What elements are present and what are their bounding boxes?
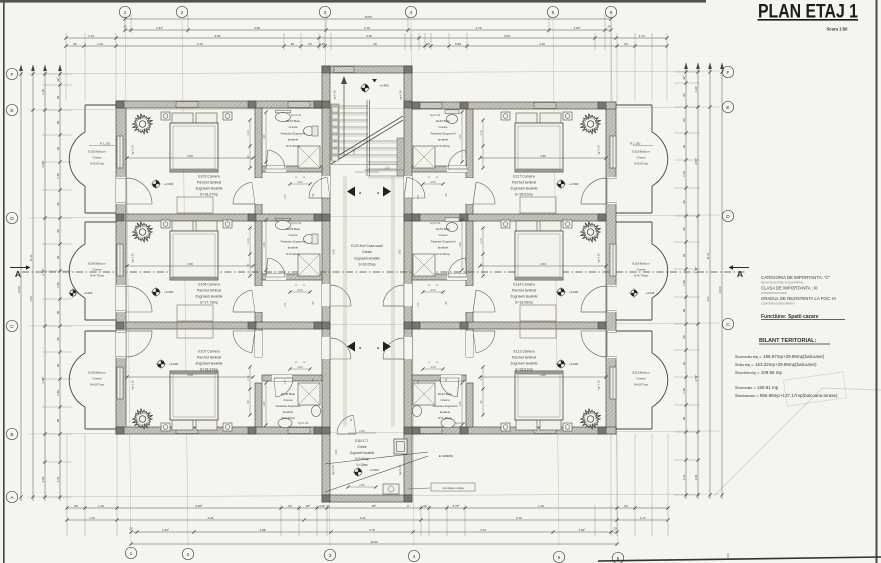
svg-text:+3.000: +3.000 [569,182,579,186]
balcony door room E117 [581,177,617,204]
hall door room E104 [233,286,262,312]
rug room E101 [177,197,213,213]
svg-text:32⁵: 32⁵ [682,74,686,79]
svg-text:14.60: 14.60 [718,286,722,293]
svg-text:S=3.40mp: S=3.40mp [281,416,295,420]
balcony E109 label [88,371,106,387]
svg-text:1.94⁵: 1.94⁵ [156,26,164,30]
bath E115 label [430,221,456,256]
svg-text:2.60: 2.60 [359,483,365,487]
wall stair shaft left [322,66,330,495]
svg-text:+3.000: +3.000 [569,362,579,366]
interior dim room E117 [478,145,607,160]
svg-text:3: 3 [329,553,332,559]
svg-text:E117:Camera: E117:Camera [513,175,534,179]
svg-text:Gresie: Gresie [92,268,101,272]
svg-text:E106:Balcon: E106:Balcon [88,262,106,266]
hall dims unit E112 [417,362,448,384]
svg-text:5.60⁵: 5.60⁵ [195,504,203,508]
svg-text:Gresie: Gresie [636,268,645,272]
balcony window room E117 [610,136,616,168]
svg-text:2.00: 2.00 [297,365,303,369]
left dimension column sub [29,65,35,502]
windows top wall [176,67,556,109]
corridor label E120 [332,244,402,267]
centrala murala callout [408,483,475,491]
svg-text:6.40: 6.40 [208,516,214,520]
svg-text:11.41: 11.41 [29,254,33,261]
svg-text:1.47: 1.47 [417,194,420,199]
bath E115 side dims [459,218,464,271]
plant room E107 [132,409,152,430]
rug room E104 [177,305,213,321]
bath E108 side dims [263,381,268,426]
svg-text:hgr=1.60: hgr=1.60 [332,464,335,475]
svg-text:V>10mc: V>10mc [356,463,368,467]
bath E115 fixtures [413,218,459,276]
svg-text:1.47: 1.47 [284,302,287,307]
svg-text:E115:Baie: E115:Baie [436,227,450,231]
entry door unit E102 [309,176,330,198]
svg-text:E116:Balcon: E116:Balcon [632,262,650,266]
label room E111 [510,350,537,372]
svg-text:hg=0.90: hg=0.90 [333,90,337,100]
bath E108 fixtures [278,383,321,428]
svg-text:2: 2 [187,552,190,558]
svg-text:6.90: 6.90 [215,34,221,38]
svg-text:Zugraveli lavabile: Zugraveli lavabile [195,187,222,191]
wall outer left [116,101,126,434]
balcony window room E114 [610,244,616,276]
svg-text:92: 92 [682,362,686,366]
partition dim room E101 [247,118,252,169]
svg-text:B: B [10,432,13,438]
svg-text:hg=1.00: hg=1.00 [597,145,601,155]
boiler room door [336,415,356,434]
svg-text:3: 3 [324,10,327,16]
svg-text:F: F [11,72,14,78]
svg-text:20: 20 [373,42,377,46]
top dimension row axes [123,25,612,32]
label room E104 [195,283,222,305]
bed room E104 [161,220,232,280]
svg-text:Parchet laminat: Parchet laminat [512,356,536,360]
rug room E114 [520,305,556,321]
svg-text:2.10: 2.10 [247,375,250,380]
partition dim room E111 [480,365,485,416]
entry door unit E105 [322,284,351,306]
svg-text:4.68: 4.68 [254,26,260,30]
svg-text:20: 20 [123,25,127,29]
svg-text:Zugraveli lavabile: Zugraveli lavabile [195,295,222,299]
boiler unit [394,439,407,454]
svg-text:lavabile: lavabile [283,410,294,414]
hall dims unit E108 [284,362,315,384]
section arrows a upper [347,187,391,197]
balcony E119 [616,105,668,213]
svg-text:hgr=1.60: hgr=1.60 [430,113,441,117]
svg-text:5.70: 5.70 [197,42,203,46]
svg-text:1.80: 1.80 [263,134,266,139]
svg-text:Gresie: Gresie [440,398,449,402]
bath E118 fixtures [413,110,459,168]
svg-text:2.00: 2.00 [430,365,436,369]
svg-text:S=3.40mp: S=3.40mp [438,416,452,420]
svg-text:90: 90 [56,419,60,423]
scan edge left line [3,2,5,563]
balcony door room E111 [581,331,617,358]
svg-text:Zugraveli lavabile: Zugraveli lavabile [510,187,537,191]
svg-text:F: F [727,70,730,76]
top dimension row walls [64,34,668,40]
balcony E116 label [629,262,655,298]
bath E105 door [266,258,286,280]
svg-text:4: 4 [410,10,413,16]
svg-text:E109:Balcon: E109:Balcon [88,371,106,375]
plant room E114 [580,222,600,243]
svg-text:CATEGORIA DE IMPORTANTA: "C": CATEGORIA DE IMPORTANTA: "C" [761,275,831,280]
svg-text:2.10: 2.10 [247,130,250,135]
svg-text:2.40: 2.40 [364,168,370,172]
svg-text:hg=1.00: hg=1.00 [131,253,135,263]
svg-text:5.80: 5.80 [455,42,461,46]
wall top right span [412,102,616,109]
svg-text:E114:Camera: E114:Camera [513,283,534,287]
bed room E117 [501,112,572,172]
bath E105 label [281,221,306,256]
svg-text:6: 6 [610,10,613,16]
interior dim room E111 [478,373,607,390]
boiler room level marker [353,467,379,477]
svg-text:90: 90 [682,335,686,339]
bath E102 fixtures [276,110,321,168]
svg-text:20: 20 [613,527,617,531]
staircase [331,76,404,178]
svg-text:Gresie: Gresie [438,125,447,129]
wall partition right units [466,109,473,427]
balcony E116 [616,222,668,320]
svg-text:D: D [726,214,730,220]
bath E105 fixtures [276,218,321,276]
svg-text:92: 92 [56,364,60,368]
svg-text:E104:Camera: E104:Camera [198,283,220,287]
level marker room E117 [556,179,579,189]
svg-text:+3.000: +3.000 [169,362,179,366]
svg-text:1.10: 1.10 [385,167,390,170]
svg-text:90: 90 [56,311,60,315]
balcony window room E104 [117,244,123,276]
svg-text:lavabile: lavabile [438,138,449,142]
svg-text:1.10: 1.10 [538,504,544,508]
svg-text:20: 20 [129,527,133,531]
section arrows a lower [347,342,391,352]
svg-text:E105:Baie: E105:Baie [286,227,301,231]
svg-text:+3.000: +3.000 [164,290,174,294]
svg-text:1.47: 1.47 [417,379,420,384]
svg-text:S=18.61mp: S=18.61mp [515,193,533,197]
svg-text:1.80: 1.80 [459,401,462,406]
title PLAN ETAJ 1 [758,2,859,23]
svg-text:1.47: 1.47 [284,194,287,199]
svg-text:S=5.07mp: S=5.07mp [634,162,648,166]
balcony E113 label [632,371,650,387]
svg-text:E113:Balcon: E113:Balcon [632,371,650,375]
svg-text:hgr=1.60: hgr=1.60 [291,113,302,117]
balcony window room E107 [117,367,123,399]
svg-text:1.60: 1.60 [56,390,60,396]
wall partition left units [255,108,262,427]
hall dims unit E115 [417,285,448,307]
svg-text:1: 1 [124,10,127,16]
svg-text:2.14: 2.14 [56,476,60,482]
svg-text:92: 92 [56,256,60,260]
label room E117 [510,175,537,197]
label room E107 [195,350,222,372]
balcony door room E107 [116,331,152,358]
svg-text:2.00: 2.00 [297,180,303,184]
svg-text:D: D [10,216,14,222]
balcony E106 [69,222,116,320]
svg-text:3.53: 3.53 [29,296,33,302]
svg-text:1.60: 1.60 [56,282,60,288]
svg-text:16.50: 16.50 [370,540,378,544]
svg-text:Sconstruita = 150.81 mp: Sconstruita = 150.81 mp [735,385,779,390]
bath E108 door [272,375,293,397]
balcony E106 label [68,262,106,298]
bottom dimension row openings [65,504,669,510]
corridor dims [350,168,379,421]
svg-text:S=26.05mp: S=26.05mp [359,263,376,267]
wall stair tower top [322,66,412,73]
svg-text:Parchet laminat: Parchet laminat [197,289,221,293]
svg-text:60: 60 [426,42,430,46]
svg-text:Zugraveli lavabile: Zugraveli lavabile [195,362,222,366]
interior dim room E114 [478,253,607,268]
plant room E101 [132,114,152,135]
svg-text:Centrala murala: Centrala murala [442,486,464,490]
svg-text:hg=0.90: hg=0.90 [399,90,403,100]
windows bottom wall [176,428,556,434]
svg-text:R 1,150: R 1,150 [630,142,641,146]
svg-text:E118:Baie: E118:Baie [436,119,450,123]
bilant values total [735,385,838,398]
svg-text:S=5.07mp: S=5.07mp [90,383,104,387]
structural columns [116,66,606,502]
svg-text:E110:C.T.: E110:C.T. [355,439,369,443]
balcony E119 label [630,142,653,166]
svg-text:1.70: 1.70 [639,34,645,38]
svg-text:90: 90 [56,121,60,125]
svg-text:S=5.07mp: S=5.07mp [90,162,104,166]
svg-text:32⁵: 32⁵ [56,76,60,81]
note functiune [761,314,845,320]
svg-text:S=4.79mp: S=4.79mp [90,274,104,278]
heading bilant teritorial [759,338,830,344]
svg-text:Gresie: Gresie [362,250,372,254]
svg-text:1.60: 1.60 [682,171,686,177]
svg-text:2.14: 2.14 [682,474,686,480]
witness lines bottom [67,434,668,536]
fire rating callout [325,452,453,492]
svg-text:C: C [726,322,730,328]
boiler room sink [383,484,399,494]
plant room E117 [580,114,600,135]
left dimension column axes [41,65,47,502]
bottom dimension row walls [65,516,669,522]
svg-text:2.04: 2.04 [694,474,698,480]
top dimension row total [123,15,612,21]
svg-text:1.60: 1.60 [56,173,60,179]
svg-text:2.10: 2.10 [480,375,483,380]
svg-text:90: 90 [682,118,686,122]
svg-text:Functiune: Spatii cazare: Functiune: Spatii cazare [761,314,819,320]
svg-text:82: 82 [56,96,60,100]
hall door room E111 [466,331,495,357]
svg-text:4.60: 4.60 [540,262,546,266]
svg-text:S=18.27mp: S=18.27mp [200,368,218,372]
svg-text:E111:Camera: E111:Camera [513,350,534,354]
svg-text:E120:Hol+Casa scarii: E120:Hol+Casa scarii [351,244,383,248]
svg-text:2: 2 [181,10,184,16]
svg-text:hg=1.00: hg=1.00 [131,145,135,155]
level marker room E101 [151,179,174,189]
balcony window room E111 [610,367,616,399]
bottom dimension row axes [129,527,618,534]
rug room E111 [520,322,556,338]
svg-text:3.59⁵: 3.59⁵ [694,266,698,274]
svg-text:CLASA DE IMPORTANTA : III: CLASA DE IMPORTANTA : III [761,286,818,291]
svg-text:1.60: 1.60 [682,280,686,286]
svg-text:Parchet laminat: Parchet laminat [197,356,221,360]
svg-text:Faianta+Zugraveli: Faianta+Zugraveli [433,404,458,408]
svg-text:20: 20 [607,25,611,29]
svg-text:82: 82 [682,93,686,97]
svg-text:Gresie: Gresie [636,377,645,381]
svg-text:lavabile: lavabile [438,246,449,250]
svg-text:1.94⁵: 1.94⁵ [573,26,581,30]
svg-text:60: 60 [624,504,628,508]
svg-text:30⁵: 30⁵ [372,504,377,508]
top dimension row openings [64,42,668,48]
faint backside outline [714,372,881,496]
svg-text:92: 92 [682,254,686,258]
svg-text:30⁵: 30⁵ [306,504,311,508]
partition dim room E117 [480,118,485,169]
stair rail labels [333,90,403,155]
svg-text:S=18.27mp: S=18.27mp [200,193,218,197]
label room E114 [510,283,537,305]
svg-text:Gresie: Gresie [357,445,367,449]
svg-text:Gresie: Gresie [92,377,101,381]
svg-text:Sconstruita etaj = 196.97mp+29: Sconstruita etaj = 196.97mp+29.86mp(balc… [735,354,825,359]
hall dims unit E105 [284,285,315,307]
witness lines left [42,74,72,497]
svg-text:2.00: 2.00 [430,288,436,292]
svg-text:Zugraveli lavabile: Zugraveli lavabile [350,451,375,455]
svg-text:E: E [10,108,13,114]
svg-text:3.40: 3.40 [319,42,325,46]
svg-text:lavabile: lavabile [440,410,451,414]
svg-text:hgr=1.60: hgr=1.60 [399,464,402,475]
svg-text:E119:Balcon: E119:Balcon [632,150,650,154]
hall dims unit E118 [417,177,448,199]
svg-text:3.59⁵: 3.59⁵ [694,157,698,165]
svg-text:1.70: 1.70 [640,516,646,520]
wall top left span [116,101,322,108]
entry door unit E118 [404,176,425,198]
note categoria [761,275,836,305]
hall door room E101 [233,178,262,204]
svg-text:60: 60 [73,42,77,46]
wall interior C left [126,322,322,329]
svg-text:C: C [10,324,14,330]
svg-text:2.10: 2.10 [247,238,250,243]
svg-text:4.79: 4.79 [476,26,482,30]
svg-text:Gresie: Gresie [438,233,447,237]
svg-text:Gresie: Gresie [283,398,292,402]
svg-text:+3.000: +3.000 [164,182,174,186]
svg-text:Gresie: Gresie [636,156,645,160]
hall door room E114 [466,286,495,312]
svg-text:S=18.61mp: S=18.61mp [515,368,533,372]
svg-text:S=3.40mp: S=3.40mp [286,252,300,256]
svg-text:90: 90 [682,309,686,313]
svg-text:1: 1 [130,551,133,557]
hall door room E117 [466,178,495,204]
svg-text:90: 90 [56,337,60,341]
svg-text:1.94⁵: 1.94⁵ [578,528,586,532]
left dimension column total [17,65,23,502]
svg-text:Sutila etaj = 163.32mp+29.86mp: Sutila etaj = 163.32mp+29.86mp(balcoane) [735,362,817,367]
balcony window room E101 [117,136,123,168]
bath E118 side dims [459,110,464,163]
svg-text:CONFORM P118/99 NORMATIV: CONFORM P118/99 NORMATIV [761,302,795,305]
svg-text:6.00: 6.00 [504,34,510,38]
balcony door room E114 [581,285,617,312]
svg-text:Parchet laminat: Parchet laminat [197,181,221,185]
wall bottom right span [412,427,616,434]
svg-text:Slocuibila etaj = 109.55 mp: Slocuibila etaj = 109.55 mp [735,370,782,375]
svg-text:4: 4 [413,554,416,560]
svg-text:3.40: 3.40 [366,34,372,38]
plant room E104 [132,222,152,243]
wall interior D left [126,214,322,221]
svg-text:3.57: 3.57 [706,296,710,302]
svg-text:2.04: 2.04 [41,476,45,482]
svg-text:S=18.06mp: S=18.06mp [515,301,533,305]
svg-text:+3.000: +3.000 [646,291,655,295]
svg-text:1.94⁵: 1.94⁵ [162,528,170,532]
svg-text:Parchet laminat: Parchet laminat [512,181,536,185]
bath E118 label [430,113,456,148]
svg-text:6.70: 6.70 [516,516,522,520]
svg-text:1.80: 1.80 [263,401,266,406]
svg-text:1.10: 1.10 [98,504,104,508]
svg-text:4.50: 4.50 [187,373,193,377]
svg-text:60: 60 [288,504,292,508]
svg-text:hgr=1.60: hgr=1.60 [455,421,466,425]
svg-text:3.59⁵: 3.59⁵ [41,160,45,168]
partition dim room E114 [480,226,485,277]
svg-text:Faianta+Zugraveli: Faianta+Zugraveli [281,131,306,135]
bath E112 fixtures [412,383,455,428]
svg-text:90: 90 [682,417,686,421]
grid bubbles bottom [125,547,136,558]
svg-text:14.60: 14.60 [17,286,21,293]
bed room E101 [161,112,232,172]
svg-text:2.60: 2.60 [352,149,356,155]
level marker room E107 [156,359,179,369]
